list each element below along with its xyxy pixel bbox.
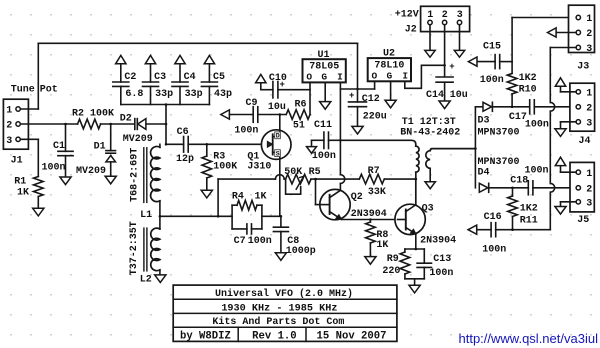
svg-text:C2: C2 (124, 72, 136, 83)
svg-text:100n: 100n (429, 268, 453, 279)
capacitor C18 (527, 181, 529, 195)
ground below U2 G (385, 100, 396, 108)
connector J5 (570, 162, 594, 212)
svg-text:2: 2 (586, 104, 592, 115)
wire C2-C5 bus drop (165, 105, 167, 145)
svg-text:MPN3700: MPN3700 (478, 128, 520, 139)
svg-text:MV209: MV209 (123, 134, 153, 145)
svg-text:R10: R10 (519, 85, 537, 96)
svg-text:C13: C13 (433, 254, 451, 265)
svg-text:C16: C16 (484, 212, 502, 223)
svg-text:G: G (387, 70, 393, 81)
svg-text:C1: C1 (53, 141, 65, 152)
svg-text:3: 3 (586, 44, 592, 55)
wire J1 pin3 down (20, 138, 38, 140)
junction D2/drop (165, 123, 168, 126)
svg-text:I: I (337, 71, 343, 82)
junction bus/drop (165, 103, 168, 106)
wire L1/L2 tap (160, 215, 232, 217)
svg-text:3: 3 (586, 199, 592, 210)
ground below J2 pin1 (425, 50, 435, 57)
svg-text:Pot: Pot (40, 84, 58, 95)
svg-text:C9: C9 (246, 98, 258, 109)
svg-text:G: G (321, 71, 327, 82)
ground below C14 (439, 101, 450, 109)
wire J1 pin2 row (20, 123, 77, 125)
svg-text:C11: C11 (314, 120, 332, 131)
svg-text:C10: C10 (269, 73, 287, 84)
svg-text:1: 1 (586, 169, 592, 180)
ground at J4 pin3 (555, 129, 566, 137)
junction sec/feed (474, 147, 477, 150)
junction Q3e/R9C13 (415, 248, 418, 251)
capacitor C13 (423, 249, 425, 263)
wire network to C8 (262, 215, 281, 217)
wire gate line (207, 143, 262, 145)
svg-text:3: 3 (6, 136, 12, 147)
wire U1 O pin down (309, 83, 311, 115)
ground below C1 (60, 177, 71, 185)
wire R7 to T1 (384, 178, 416, 180)
capacitor C11 (312, 139, 324, 141)
transistor Q3 2N3904 (395, 204, 425, 234)
svg-text:T37-2:35T: T37-2:35T (129, 221, 140, 275)
power arrow above C3 (145, 55, 155, 63)
arrow to C16 (468, 225, 477, 234)
svg-text:100n: 100n (42, 163, 66, 174)
svg-text:D4: D4 (478, 168, 490, 179)
junction R5/Q2base (314, 178, 317, 181)
svg-text:R5: R5 (309, 167, 321, 178)
svg-text:1930 KHz - 1985 KHz: 1930 KHz - 1985 KHz (221, 303, 337, 314)
svg-text:C12: C12 (362, 94, 380, 105)
svg-text:I: I (402, 70, 408, 81)
svg-text:10u: 10u (450, 90, 468, 101)
svg-text:R9: R9 (387, 254, 399, 265)
resistor R4 (237, 200, 257, 210)
ground below C12 (352, 126, 363, 134)
wire Q1 drain up (279, 115, 281, 130)
svg-text:J4: J4 (579, 136, 591, 147)
resistor R9 (404, 249, 406, 252)
connector J2 (421, 6, 470, 31)
power arrow above C5 (204, 55, 214, 63)
wire J3 pin2 (556, 32, 576, 34)
svg-text:33K: 33K (368, 187, 386, 198)
wire J5 pin3 (561, 201, 577, 203)
svg-text:D3: D3 (478, 116, 490, 127)
junction R11/C16 (511, 228, 514, 231)
svg-text:12p: 12p (176, 154, 194, 165)
junction R10/D3 (511, 106, 514, 109)
svg-text:1: 1 (427, 10, 433, 21)
svg-text:R6: R6 (295, 100, 307, 111)
svg-text:1K: 1K (17, 188, 29, 199)
ground below R9C13 (409, 285, 420, 293)
ground below C11 (307, 147, 317, 154)
capacitor C5 (208, 64, 210, 82)
svg-text:33p: 33p (155, 89, 173, 100)
svg-text:3: 3 (457, 10, 463, 21)
svg-text:C3: C3 (154, 72, 166, 83)
resistor R1 (34, 177, 44, 197)
wire T1 primary to Q3 (415, 172, 417, 205)
capacitor C4 (179, 64, 181, 82)
svg-text:50K: 50K (284, 167, 302, 178)
wire 10V U1-U2 (340, 88, 374, 90)
wire J5 pin1 (561, 171, 577, 173)
junction C12/10V (356, 88, 359, 91)
arrow at J4 pin1 (555, 78, 565, 86)
svg-text:15 Nov 2007: 15 Nov 2007 (317, 330, 387, 342)
svg-text:S: S (276, 151, 280, 158)
svg-text:T68-2:69T: T68-2:69T (129, 148, 140, 202)
svg-text:R11: R11 (520, 215, 538, 226)
junction +12V/C14 (443, 64, 446, 67)
capacitor C6 (166, 143, 184, 145)
junction R11/D4 (511, 187, 514, 190)
svg-text:C5: C5 (213, 72, 225, 83)
wire R5 to Q2 base (315, 179, 317, 205)
svg-text:1K: 1K (376, 240, 388, 251)
svg-text:O: O (306, 71, 312, 82)
svg-text:R1: R1 (14, 177, 26, 188)
wire Q2 emitter line (341, 219, 397, 221)
svg-text:43p: 43p (214, 89, 232, 100)
ground below R3 (201, 190, 212, 198)
wire Q1 source down (279, 159, 281, 216)
wire C18 to J5 pin2 (533, 187, 576, 189)
svg-text:2: 2 (586, 185, 592, 196)
svg-text:3: 3 (586, 119, 592, 130)
ground below R8 (365, 257, 376, 265)
resistor R8 (369, 220, 371, 223)
wire U1 I down (10V rail) (339, 83, 341, 175)
L1 core lines (143, 148, 145, 203)
svg-text:1: 1 (6, 106, 12, 117)
svg-text:51: 51 (293, 121, 305, 132)
junction rail/C11 (339, 139, 342, 142)
R4C7 network (231, 205, 233, 229)
arrow to C9 (221, 110, 230, 119)
svg-text:R2 100K: R2 100K (72, 109, 114, 120)
capacitor C8 (280, 216, 282, 227)
wire D4 to C18 (489, 187, 528, 189)
ground below U1 G (320, 102, 331, 110)
connector J1 (3, 99, 28, 149)
svg-text:100n: 100n (248, 236, 272, 247)
junction Q1source/C8 (280, 215, 283, 218)
svg-text:Tune: Tune (11, 84, 35, 95)
svg-text:+: + (449, 62, 454, 72)
svg-text:J5: J5 (577, 215, 589, 226)
wire R10 top to J3 pin1 (511, 18, 513, 62)
svg-text:1K: 1K (255, 191, 267, 202)
capacitor C15 (477, 61, 495, 63)
ground below J2 pin3 (454, 50, 464, 57)
wire J1 pin1 to top bus (20, 108, 38, 110)
wire R9C13 bottom (405, 278, 424, 280)
wire J4 pin1 (561, 91, 577, 93)
capacitor C10 (261, 89, 273, 91)
capacitor C16 (477, 229, 491, 231)
svg-text:2: 2 (442, 10, 448, 21)
wire bias line (218, 178, 275, 180)
svg-text:MPN3700: MPN3700 (478, 157, 520, 168)
svg-text:J2: J2 (405, 25, 417, 36)
svg-text:100n: 100n (525, 119, 549, 130)
capacitor C12 (357, 43, 359, 102)
svg-text:U1: U1 (317, 50, 329, 61)
resistor R2 (78, 119, 101, 129)
wire R9C13 top (405, 248, 424, 250)
junction emitter/R8 (369, 218, 372, 221)
ground below C8 (275, 253, 286, 261)
svg-text:100K: 100K (213, 161, 237, 172)
svg-text:+: + (349, 91, 354, 101)
svg-text:C7: C7 (234, 236, 246, 247)
capacitor C9 (229, 114, 253, 116)
svg-text:100n: 100n (480, 75, 504, 86)
wire D3 to C17 (493, 106, 530, 108)
svg-text:+12V: +12V (395, 10, 419, 21)
regulator U2 78L10 (368, 58, 411, 81)
inductor L2 (159, 216, 161, 229)
arrow to C15 (468, 57, 477, 66)
varactor D2 (134, 119, 136, 130)
svg-text:2N3904: 2N3904 (420, 236, 456, 247)
svg-text:1K2: 1K2 (520, 203, 538, 214)
resistor R3 (206, 144, 208, 156)
svg-text:J310: J310 (247, 162, 271, 173)
T1 secondary coil (426, 151, 430, 169)
arrow at J5 pin1 (555, 157, 565, 165)
inductor L1 (151, 146, 160, 201)
ground below D1 (105, 176, 116, 184)
svg-text:U2: U2 (383, 49, 395, 60)
wire U1 G down (324, 83, 326, 102)
capacitor C7 (246, 224, 248, 234)
wire C2-C5 bottom bus (121, 104, 210, 106)
svg-text:R7: R7 (368, 166, 380, 177)
svg-text:6.8: 6.8 (125, 89, 143, 100)
resistor R11 (512, 188, 514, 196)
svg-text:Q2: Q2 (351, 192, 363, 203)
regulator U1 78L05 (303, 59, 346, 82)
wire U2 O down (374, 81, 376, 89)
svg-text:L2: L2 (140, 275, 152, 286)
ground at J5 pin3 (555, 207, 566, 215)
svg-text:by W8DIZ: by W8DIZ (180, 330, 231, 342)
L2 core lines (143, 228, 145, 271)
svg-text:100n: 100n (482, 244, 506, 255)
connector J4 (570, 83, 595, 131)
svg-text:BN-43-2402: BN-43-2402 (400, 128, 460, 139)
svg-text:Q3: Q3 (422, 204, 434, 215)
diode D3 MPN3700 (483, 102, 492, 111)
svg-text:2N3904: 2N3904 (351, 209, 387, 220)
junction tap/bias (217, 215, 220, 218)
svg-text:J1: J1 (11, 155, 23, 166)
ground below L2 (155, 275, 166, 283)
svg-text:http://www.qsl.net/va3iul: http://www.qsl.net/va3iul (459, 331, 599, 346)
svg-text:C15: C15 (483, 42, 501, 53)
wire T1 primary top (340, 140, 415, 146)
junction pin2/D1 (109, 123, 112, 126)
ground below T1 secondary (425, 182, 435, 189)
svg-text:Rev 1.0: Rev 1.0 (252, 330, 297, 342)
svg-text:100n: 100n (525, 165, 549, 176)
svg-text:Universal VFO (2.0 MHz): Universal VFO (2.0 MHz) (215, 288, 353, 300)
svg-text:O: O (372, 70, 378, 81)
wire top bus (38, 42, 357, 44)
svg-text:D1: D1 (94, 141, 106, 152)
svg-text:Kits And Parts Dot Com: Kits And Parts Dot Com (212, 316, 344, 328)
capacitor C1 (65, 124, 67, 151)
svg-text:C14: C14 (426, 90, 444, 101)
svg-text:220u: 220u (363, 112, 387, 123)
svg-text:C6: C6 (177, 127, 189, 138)
svg-text:L1: L1 (140, 210, 152, 221)
capacitor C3 (150, 64, 152, 82)
svg-text:1000p: 1000p (286, 246, 316, 257)
diode D4 MPN3700 (479, 183, 488, 192)
svg-text:1: 1 (586, 14, 592, 25)
resistor R7 (359, 174, 384, 184)
T1 primary coil (416, 146, 419, 172)
transistor Q2 2N3904 (320, 189, 350, 219)
wire R5 to R7 (311, 178, 359, 180)
svg-text:J3: J3 (577, 61, 589, 72)
wire R2 to D2 (101, 123, 135, 125)
capacitor C2 (120, 64, 122, 82)
wire C17 to J4 pin2 (534, 106, 575, 108)
svg-text:MV209: MV209 (76, 166, 106, 177)
wire U2 I to +12V (405, 65, 445, 88)
wire T1 secondary down (429, 168, 431, 181)
varactor D1 (110, 124, 112, 151)
svg-text:D: D (276, 133, 280, 140)
wire T1 sec to D3/D4 (474, 107, 476, 149)
power arrow above C2 (116, 55, 126, 63)
svg-text:R4: R4 (232, 191, 244, 202)
wire J2 pin1 down (429, 25, 431, 51)
wire J3 pin3 long drop (550, 47, 576, 49)
svg-text:100n: 100n (234, 126, 258, 137)
svg-text:C4: C4 (184, 72, 196, 83)
wire Q3 emitter down (415, 234, 417, 249)
junction pin2/C1 (64, 123, 67, 126)
junction L1/L2/tap (159, 215, 162, 218)
title block frame (173, 285, 397, 341)
wire J2 pin3 down (459, 25, 461, 51)
capacitor C17 (529, 100, 531, 114)
svg-text:33p: 33p (185, 89, 203, 100)
junction drain/C9 (279, 113, 282, 116)
svg-text:2: 2 (586, 29, 592, 40)
wire J4 pin3 (561, 121, 577, 123)
power arrow at C10 (256, 74, 266, 82)
trimmer R5 (286, 174, 311, 184)
svg-text:C18: C18 (510, 175, 528, 186)
connector J3 (569, 5, 595, 52)
junction R7/T1 (415, 178, 418, 181)
wire T1 secondary top (430, 149, 475, 151)
transistor Q1 J310 (261, 130, 291, 160)
svg-text:220: 220 (382, 266, 400, 277)
wire U2 G down (390, 81, 392, 100)
svg-text:100n: 100n (312, 151, 336, 162)
resistor R6 (286, 110, 310, 120)
svg-text:1K2: 1K2 (519, 73, 537, 84)
junction L1 top (165, 143, 168, 146)
junction gate/R3 (206, 143, 209, 146)
power arrow above C4 (175, 55, 185, 63)
resistor R10 (511, 62, 513, 74)
wire J2 pin2 down (444, 25, 446, 77)
ground below R1 (33, 208, 44, 216)
svg-text:D2: D2 (120, 113, 132, 124)
svg-text:2: 2 (6, 121, 12, 132)
arrow at J3 pin2 (548, 28, 557, 37)
wire bias drop (217, 179, 219, 216)
svg-text:10u: 10u (268, 102, 286, 113)
svg-text:1: 1 (586, 89, 592, 100)
